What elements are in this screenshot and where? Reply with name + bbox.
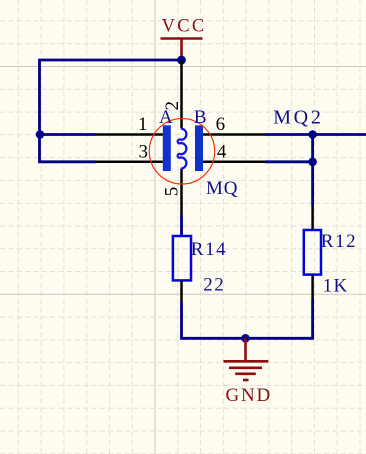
wire <box>311 135 314 207</box>
svg-text:5: 5 <box>162 187 183 197</box>
svg-text:GND: GND <box>226 385 273 406</box>
wire <box>40 133 96 136</box>
resistor R12 pin 1 <box>311 206 314 230</box>
junction <box>177 56 186 65</box>
svg-text:1K: 1K <box>323 276 349 297</box>
junction <box>241 334 250 343</box>
junction <box>308 130 317 139</box>
svg-text:4: 4 <box>217 141 227 162</box>
resistor R12 pin 2 <box>311 275 314 299</box>
svg-text:1: 1 <box>138 114 148 135</box>
svg-text:R14: R14 <box>191 239 227 260</box>
wire MQ2 <box>265 133 366 136</box>
wire <box>180 215 183 237</box>
wire <box>265 160 313 163</box>
junction <box>308 158 317 167</box>
junction <box>36 130 45 139</box>
svg-text:3: 3 <box>139 141 149 162</box>
resistor R14 body <box>173 236 191 280</box>
sensor MQ electrode plate A <box>163 125 171 171</box>
pin 3 <box>96 141 163 162</box>
wire <box>182 299 313 338</box>
sensor MQ heater coil <box>178 129 187 169</box>
svg-text:22: 22 <box>203 274 225 295</box>
ground GND <box>223 338 272 406</box>
pin 4 <box>203 141 265 162</box>
pin 2 <box>162 60 183 128</box>
resistor R14 pin 2 <box>180 280 183 302</box>
svg-text:MQ: MQ <box>206 178 238 199</box>
sensor MQ electrode plate B <box>195 125 203 171</box>
pin 1 <box>96 114 163 135</box>
pin 6 <box>203 114 265 135</box>
svg-text:VCC: VCC <box>162 17 207 37</box>
svg-text:6: 6 <box>216 114 226 135</box>
svg-text:B: B <box>194 107 207 128</box>
sensor MQ envelope circle <box>149 119 214 184</box>
svg-text:R12: R12 <box>321 231 357 252</box>
svg-text:MQ2: MQ2 <box>273 106 323 128</box>
pin 5 <box>162 169 183 216</box>
wire <box>40 60 182 162</box>
resistor R12 body <box>304 230 321 275</box>
svg-text:A: A <box>159 107 173 128</box>
power port VCC <box>161 17 207 60</box>
